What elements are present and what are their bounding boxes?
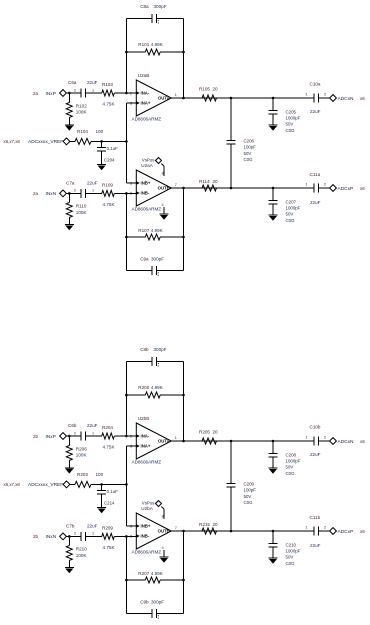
svg-text:300pF: 300pF xyxy=(151,257,164,262)
svg-text:50V: 50V xyxy=(244,151,252,156)
svg-text:R102: R102 xyxy=(76,104,87,109)
svg-text:C214: C214 xyxy=(104,501,115,506)
svg-text:1: 1 xyxy=(306,183,308,187)
svg-text:C8a: C8a xyxy=(140,4,149,9)
svg-text:C0G: C0G xyxy=(286,128,296,133)
ground xyxy=(269,468,278,474)
junction (feedback B left) xyxy=(125,236,128,239)
wire (feedback cap B row right) xyxy=(157,613,184,615)
svg-text:8: 8 xyxy=(162,172,164,176)
ground (input B bias) xyxy=(65,225,74,231)
resistor R215 20 xyxy=(199,522,218,534)
svg-text:5: 5 xyxy=(130,525,132,529)
svg-text:2: 2 xyxy=(324,183,326,187)
svg-text:7: 7 xyxy=(175,183,177,187)
svg-text:1: 1 xyxy=(175,436,177,440)
junction (feedback node right) xyxy=(182,51,185,54)
svg-text:50V: 50V xyxy=(286,555,294,560)
svg-text:2: 2 xyxy=(74,431,76,435)
port ADCxxxx_VREF xyxy=(28,481,70,488)
svg-text:2: 2 xyxy=(74,532,76,536)
svg-text:100pF: 100pF xyxy=(244,145,257,150)
wire (feedback left vertical) xyxy=(125,361,127,436)
port ADCxxxx_VREF xyxy=(28,138,70,145)
svg-text:22uF: 22uF xyxy=(310,543,321,548)
junction (differential cap top) xyxy=(230,97,233,100)
svg-text:C0G: C0G xyxy=(286,218,296,223)
svg-text:1000pF: 1000pF xyxy=(286,116,301,121)
svg-text:22uF: 22uF xyxy=(87,524,98,529)
resistor R207 4.99K xyxy=(126,571,183,583)
svg-text:R107: R107 xyxy=(138,228,149,233)
resistor R103 4.75K xyxy=(90,82,136,107)
wire (feedback cap row left) xyxy=(126,17,152,19)
wire (to ADC port A) xyxy=(319,440,330,442)
junction (output A feedback tap) xyxy=(182,97,185,100)
wire (feedback B left vertical) xyxy=(125,536,127,613)
wire (feedback B right vertical) xyxy=(183,188,185,271)
port ADCxN xyxy=(330,438,366,445)
ground (VREF decoupling) xyxy=(97,165,106,171)
wire (to ADC port B) xyxy=(319,530,330,532)
svg-text:8: 8 xyxy=(162,515,164,519)
ground (op-amp V-) xyxy=(160,557,169,563)
svg-text:C10b: C10b xyxy=(310,425,321,430)
svg-text:C210: C210 xyxy=(286,542,297,547)
op-amp U2aB xyxy=(130,73,177,122)
wire (input A) xyxy=(66,435,78,437)
svg-text:C0G: C0G xyxy=(286,561,296,566)
svg-text:R205: R205 xyxy=(199,430,210,435)
svg-text:1: 1 xyxy=(306,436,308,440)
capacitor C10a 22uF xyxy=(306,82,327,115)
wire (output A to coupling cap) xyxy=(217,97,315,99)
svg-text:4.75K: 4.75K xyxy=(103,102,116,107)
power pin V+ (pin 8) and port VsPos xyxy=(142,157,164,176)
svg-text:6: 6 xyxy=(130,192,132,196)
svg-text:C206: C206 xyxy=(244,139,255,144)
svg-text:1: 1 xyxy=(92,532,94,536)
svg-text:C0G: C0G xyxy=(244,157,254,162)
svg-text:R109: R109 xyxy=(102,182,113,187)
svg-text:R204: R204 xyxy=(102,425,113,430)
ground xyxy=(269,215,278,221)
op-amp U2bA xyxy=(130,506,177,555)
power pin V+ (pin 8) and port VsPos xyxy=(142,500,164,519)
svg-text:AD8606ARMZ: AD8606ARMZ xyxy=(132,207,162,212)
junction (VREF decoupling tap) xyxy=(100,483,103,486)
resistor R209 4.75K xyxy=(90,525,136,550)
svg-text:R203: R203 xyxy=(77,472,88,477)
svg-text:50V: 50V xyxy=(286,122,294,127)
resistor R114 20 xyxy=(199,179,218,191)
wire (output B) xyxy=(171,187,202,189)
port ADCxP xyxy=(330,528,366,535)
wire (IN+ A stub) xyxy=(126,102,136,104)
capacitor C7a 22uF xyxy=(66,181,98,198)
svg-text:OUTB: OUTB xyxy=(158,186,170,191)
svg-text:C0G: C0G xyxy=(244,500,254,505)
svg-text:U2bB: U2bB xyxy=(138,416,150,421)
capacitor C7b 22uF xyxy=(66,524,98,541)
svg-text:100: 100 xyxy=(96,472,104,477)
svg-text:ADCxN: ADCxN xyxy=(338,96,355,102)
svg-text:INB+: INB+ xyxy=(141,524,151,529)
port INxP xyxy=(33,90,66,97)
svg-text:U2bA: U2bA xyxy=(141,506,153,511)
svg-text:R207: R207 xyxy=(138,571,149,576)
wire (feedback cap row right) xyxy=(157,17,184,19)
svg-text:INB+: INB+ xyxy=(141,181,151,186)
svg-text:1: 1 xyxy=(92,88,94,92)
svg-text:INA+: INA+ xyxy=(141,101,151,106)
port INxN xyxy=(33,190,66,197)
resistor R205 20 xyxy=(199,430,218,445)
svg-text:20: 20 xyxy=(213,522,219,527)
wire (feedback cap row right) xyxy=(157,360,184,362)
wire (vertical IN+A to VREF) xyxy=(125,446,127,484)
svg-text:22uF: 22uF xyxy=(87,423,98,428)
op-amp U2bB xyxy=(130,416,177,465)
port ADCxP xyxy=(330,185,366,192)
svg-text:x6: x6 xyxy=(360,529,365,534)
svg-text:2: 2 xyxy=(324,436,326,440)
svg-text:R210: R210 xyxy=(76,547,87,552)
capacitor C11b 22uF xyxy=(306,515,327,548)
svg-text:C9a: C9a xyxy=(140,257,149,262)
ground (input A bias) xyxy=(65,125,74,131)
wire (output A) xyxy=(171,97,202,99)
wire (input B) xyxy=(66,192,78,194)
svg-text:INA+: INA+ xyxy=(141,444,151,449)
junction (VREF mid node) xyxy=(125,140,128,143)
wire (feedback B left vertical) xyxy=(125,193,127,270)
ground xyxy=(269,125,278,131)
svg-text:INA-: INA- xyxy=(141,91,150,96)
resistor R110 100K xyxy=(66,193,87,224)
capacitor C206 100pF differential xyxy=(227,98,257,188)
wire (feedback cap B row left) xyxy=(126,613,152,615)
svg-text:R114: R114 xyxy=(199,179,210,184)
svg-text:2b: 2b xyxy=(33,434,39,439)
wire (feedback B right vertical) xyxy=(183,531,185,614)
junction (output A feedback tap) xyxy=(182,440,185,443)
resistor R203 100 xyxy=(70,472,104,487)
svg-text:R110: R110 xyxy=(76,204,87,209)
capacitor C6b 22uF xyxy=(68,423,98,441)
svg-text:100K: 100K xyxy=(76,110,88,115)
capacitor C6a 22uF xyxy=(68,80,98,98)
net label x6,x7,x8 xyxy=(4,482,21,487)
svg-text:OUTA: OUTA xyxy=(158,96,170,101)
wire (to ADC port A) xyxy=(319,97,330,99)
svg-text:ADCxxxx_VREF: ADCxxxx_VREF xyxy=(28,482,63,488)
svg-text:1000pF: 1000pF xyxy=(286,206,301,211)
svg-text:4.99K: 4.99K xyxy=(151,42,164,47)
wire (output A) xyxy=(171,440,202,442)
capacitor C205 1000pF shunt xyxy=(269,98,301,133)
svg-text:R103: R103 xyxy=(102,82,113,87)
ground xyxy=(269,558,278,564)
svg-text:R209: R209 xyxy=(102,525,113,530)
wire (feedback right vertical) xyxy=(183,18,185,98)
junction (differential cap top) xyxy=(230,440,233,443)
svg-text:AD8606ARMZ: AD8606ARMZ xyxy=(132,460,162,465)
svg-text:100K: 100K xyxy=(76,453,88,458)
svg-text:300pF: 300pF xyxy=(154,4,167,9)
svg-text:C208: C208 xyxy=(286,452,297,457)
wire (feedback cap row left) xyxy=(126,360,152,362)
svg-text:5: 5 xyxy=(130,182,132,186)
svg-text:INxN: INxN xyxy=(46,534,57,540)
svg-text:22uF: 22uF xyxy=(310,200,321,205)
ground (op-amp V-) xyxy=(160,214,169,220)
junction (feedback B left) xyxy=(125,579,128,582)
svg-text:C205: C205 xyxy=(286,109,297,114)
capacitor C10b 22uF xyxy=(306,425,327,458)
power pin V- (pin 4) xyxy=(162,203,164,214)
resistor R101 4.99K xyxy=(126,42,183,55)
junction (shunt cap A tap) xyxy=(272,97,275,100)
svg-text:300pF: 300pF xyxy=(151,600,164,605)
svg-text:VsPos: VsPos xyxy=(142,500,155,505)
svg-text:x6: x6 xyxy=(360,439,365,444)
svg-text:4: 4 xyxy=(162,203,164,207)
capacitor C11a 22uF xyxy=(306,172,327,205)
svg-text:4: 4 xyxy=(162,546,164,550)
resistor R210 100K xyxy=(66,536,87,567)
op-amp U2aA xyxy=(130,163,177,212)
svg-text:ADCxP: ADCxP xyxy=(338,186,354,192)
svg-text:C6b: C6b xyxy=(68,423,77,428)
capacitor C8b 300pF xyxy=(140,347,167,366)
svg-text:1: 1 xyxy=(306,526,308,530)
svg-text:C209: C209 xyxy=(244,482,255,487)
resistor R104 100 xyxy=(70,129,104,144)
svg-text:OUTB: OUTB xyxy=(158,529,170,534)
resistor R107 4.99K xyxy=(126,228,183,240)
wire (vertical VREF to IN+B) xyxy=(125,141,127,183)
wire (vertical VREF to IN+B) xyxy=(125,484,127,526)
junction (feedback node right) xyxy=(182,394,185,397)
resistor R109 4.75K xyxy=(90,182,136,207)
junction (differential cap bottom) xyxy=(230,530,233,533)
svg-text:0.1uF: 0.1uF xyxy=(107,489,119,494)
ground (input B bias) xyxy=(65,568,74,574)
svg-text:x6,x7,x8: x6,x7,x8 xyxy=(4,139,21,144)
net label x6,x7,x8 xyxy=(4,139,21,144)
capacitor C9b 300pF xyxy=(140,600,164,619)
capacitor C210 1000pF shunt xyxy=(269,531,301,566)
junction (shunt cap B tap) xyxy=(272,530,275,533)
wire (IN+ B stub) xyxy=(126,182,136,184)
capacitor C209 100pF differential xyxy=(227,441,257,531)
svg-text:2: 2 xyxy=(74,189,76,193)
svg-text:0.1uF: 0.1uF xyxy=(107,146,119,151)
wire (feedback cap B row left) xyxy=(126,270,152,272)
svg-text:C6a: C6a xyxy=(68,80,77,85)
svg-text:INxP: INxP xyxy=(46,434,56,440)
svg-text:2a: 2a xyxy=(33,191,39,196)
capacitor C204 0.1uF decoupling xyxy=(97,141,118,164)
svg-text:C11a: C11a xyxy=(310,172,321,177)
port INxP xyxy=(33,433,66,440)
svg-text:22uF: 22uF xyxy=(87,181,98,186)
svg-text:AD8606ARMZ: AD8606ARMZ xyxy=(132,550,162,555)
junction (input B node) xyxy=(68,535,71,538)
svg-text:100K: 100K xyxy=(76,210,88,215)
svg-text:300pF: 300pF xyxy=(154,347,167,352)
schematic: dual AD8606 ADC driver, channel group a xyxy=(4,4,366,276)
wire (output B to coupling cap) xyxy=(217,530,315,532)
wire (VREF to op-amp inputs) xyxy=(91,140,126,142)
svg-text:4.99K: 4.99K xyxy=(151,571,164,576)
svg-text:100pF: 100pF xyxy=(244,488,257,493)
svg-text:C11b: C11b xyxy=(310,515,321,520)
capacitor C207 1000pF shunt xyxy=(269,188,301,223)
schematic: dual AD8606 ADC driver, channel group b xyxy=(4,347,366,619)
svg-text:100: 100 xyxy=(96,129,104,134)
wire (VREF to op-amp inputs) xyxy=(91,483,126,485)
svg-text:4.75K: 4.75K xyxy=(103,545,116,550)
resistor R206 100K xyxy=(66,436,87,468)
junction (output B feedback tap) xyxy=(182,187,185,190)
wire (IN+ A stub) xyxy=(126,445,136,447)
wire (output B to coupling cap) xyxy=(217,187,315,189)
junction (input B node) xyxy=(68,192,71,195)
svg-text:ADCxxxx_VREF: ADCxxxx_VREF xyxy=(28,139,63,145)
svg-text:ADCxN: ADCxN xyxy=(338,439,355,445)
svg-text:4.99K: 4.99K xyxy=(151,385,164,390)
resistor R105 20 xyxy=(199,87,218,102)
svg-text:50V: 50V xyxy=(244,494,252,499)
power pin V- (pin 4) xyxy=(162,546,164,557)
svg-text:C0G: C0G xyxy=(286,471,296,476)
svg-text:ADCxP: ADCxP xyxy=(338,529,354,535)
wire (to ADC port B) xyxy=(319,187,330,189)
svg-text:22uF: 22uF xyxy=(310,452,321,457)
svg-text:1000pF: 1000pF xyxy=(286,549,301,554)
svg-text:INxN: INxN xyxy=(46,191,57,197)
svg-text:INB-: INB- xyxy=(141,534,150,539)
port INxN xyxy=(33,533,66,540)
svg-text:20: 20 xyxy=(213,87,219,92)
svg-text:100K: 100K xyxy=(76,553,88,558)
svg-text:R101: R101 xyxy=(138,42,149,47)
svg-text:OUTA: OUTA xyxy=(158,439,170,444)
svg-text:INA-: INA- xyxy=(141,434,150,439)
resistor R200 4.99K xyxy=(126,385,183,398)
svg-text:22uF: 22uF xyxy=(87,80,98,85)
svg-text:2: 2 xyxy=(130,92,132,96)
wire (feedback left vertical) xyxy=(125,18,127,93)
svg-text:C8b: C8b xyxy=(140,347,149,352)
junction (feedback node left) xyxy=(125,51,128,54)
svg-text:C7a: C7a xyxy=(66,181,75,186)
junction (VREF mid node) xyxy=(125,483,128,486)
svg-text:C207: C207 xyxy=(286,199,297,204)
junction (feedback B right) xyxy=(182,579,185,582)
junction (input A node) xyxy=(68,435,71,438)
svg-text:4.75K: 4.75K xyxy=(103,202,116,207)
svg-text:2b: 2b xyxy=(33,534,39,539)
junction (inverting input node A) xyxy=(125,92,128,95)
resistor R204 4.75K xyxy=(90,425,136,450)
svg-text:1: 1 xyxy=(92,431,94,435)
svg-text:x6,x7,x8: x6,x7,x8 xyxy=(4,482,21,487)
svg-text:7: 7 xyxy=(175,526,177,530)
svg-text:6: 6 xyxy=(130,535,132,539)
svg-text:50V: 50V xyxy=(286,212,294,217)
junction (shunt cap A tap) xyxy=(272,440,275,443)
junction (VREF decoupling tap) xyxy=(100,140,103,143)
svg-text:U2aB: U2aB xyxy=(138,73,150,78)
svg-text:C7b: C7b xyxy=(66,524,75,529)
wire (input B) xyxy=(66,535,78,537)
junction (input A node) xyxy=(68,92,71,95)
wire (IN+ B stub) xyxy=(126,525,136,527)
svg-text:4.75K: 4.75K xyxy=(103,445,116,450)
svg-text:20: 20 xyxy=(213,179,219,184)
svg-text:C10a: C10a xyxy=(310,82,321,87)
svg-text:1000pF: 1000pF xyxy=(286,459,301,464)
svg-text:R200: R200 xyxy=(138,385,149,390)
wire (feedback right vertical) xyxy=(183,361,185,441)
ground (input A bias) xyxy=(65,468,74,474)
svg-text:50V: 50V xyxy=(286,465,294,470)
svg-text:INB-: INB- xyxy=(141,191,150,196)
capacitor C208 1000pF shunt xyxy=(269,441,301,476)
svg-text:1: 1 xyxy=(92,189,94,193)
svg-text:2: 2 xyxy=(324,93,326,97)
svg-text:2a: 2a xyxy=(33,91,39,96)
svg-text:R206: R206 xyxy=(76,447,87,452)
svg-text:1: 1 xyxy=(175,93,177,97)
junction (feedback node left) xyxy=(125,394,128,397)
svg-text:U2aA: U2aA xyxy=(141,163,153,168)
capacitor C9a 300pF xyxy=(140,257,164,276)
svg-text:2: 2 xyxy=(74,88,76,92)
wire (output A to coupling cap) xyxy=(217,440,315,442)
junction (inverting input node A) xyxy=(125,435,128,438)
svg-text:C9b: C9b xyxy=(140,600,149,605)
junction (feedback B right) xyxy=(182,236,185,239)
wire (output B) xyxy=(171,530,202,532)
junction (inverting input node B) xyxy=(125,192,128,195)
wire (input A) xyxy=(66,92,78,94)
junction (inverting input node B) xyxy=(125,535,128,538)
svg-text:4.99K: 4.99K xyxy=(151,228,164,233)
wire (vertical IN+A to VREF) xyxy=(125,103,127,141)
svg-text:1: 1 xyxy=(306,93,308,97)
svg-text:C204: C204 xyxy=(104,158,115,163)
svg-text:R105: R105 xyxy=(199,87,210,92)
ground (VREF decoupling) xyxy=(97,508,106,514)
svg-text:AD8606ARMZ: AD8606ARMZ xyxy=(132,117,162,122)
svg-text:x6: x6 xyxy=(360,96,365,101)
svg-text:2: 2 xyxy=(130,435,132,439)
wire (feedback cap B row right) xyxy=(157,270,184,272)
svg-text:22uF: 22uF xyxy=(310,109,321,114)
junction (shunt cap B tap) xyxy=(272,187,275,190)
junction (output B feedback tap) xyxy=(182,530,185,533)
svg-text:x6: x6 xyxy=(360,186,365,191)
junction (differential cap bottom) xyxy=(230,187,233,190)
svg-text:2: 2 xyxy=(324,526,326,530)
svg-text:VsPos: VsPos xyxy=(142,157,155,162)
capacitor C8a 300pF xyxy=(140,4,167,23)
resistor R102 100K xyxy=(66,93,87,125)
